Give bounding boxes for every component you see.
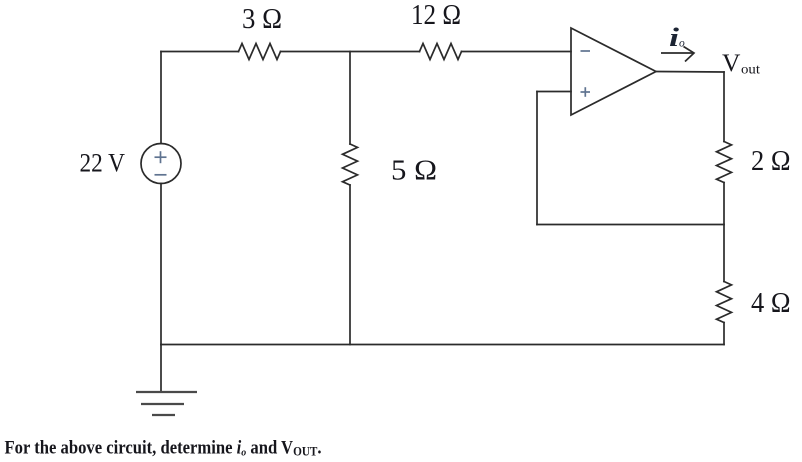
wire right vertical (Vout to 2-ohm) bbox=[723, 72, 725, 142]
wire feedback vertical bbox=[536, 92, 538, 225]
svg-text:o: o bbox=[679, 38, 685, 50]
resistor 12 ohm bbox=[420, 44, 462, 60]
wire op-amp output bbox=[656, 71, 724, 74]
wire left vertical upper (source to top wire) bbox=[160, 52, 162, 144]
op-amp input polarity marks bbox=[581, 51, 591, 97]
wire 12-ohm to op-amp inverting input bbox=[462, 51, 572, 53]
voltage source V1 22V circle bbox=[141, 144, 181, 184]
resistor 4 ohm bbox=[717, 282, 732, 323]
svg-text:4 Ω: 4 Ω bbox=[751, 287, 791, 319]
wire feedback horizontal bbox=[537, 224, 724, 226]
wire noninverting input stub bbox=[537, 91, 571, 93]
resistor 3 ohm bbox=[239, 44, 281, 60]
wire left vertical lower (source to bottom wire) bbox=[160, 184, 162, 345]
wire bottom horizontal bbox=[161, 344, 724, 346]
wire right vertical (2-ohm to 4-ohm through feedback node) bbox=[723, 183, 725, 282]
ground symbol bbox=[136, 392, 197, 415]
resistor 2 ohm bbox=[717, 142, 732, 183]
svg-text:2 Ω: 2 Ω bbox=[751, 145, 791, 177]
svg-text:out: out bbox=[741, 62, 760, 77]
op-amp U1 triangle bbox=[571, 28, 656, 115]
wire ground stem bbox=[160, 345, 162, 393]
voltage source polarity marks bbox=[155, 151, 167, 175]
svg-text:3 Ω: 3 Ω bbox=[242, 3, 282, 35]
resistor 5 ohm bbox=[343, 144, 358, 185]
svg-text:5 Ω: 5 Ω bbox=[391, 155, 437, 187]
wire middle vertical upper (node A to 5-ohm) bbox=[349, 52, 351, 145]
svg-text:12 Ω: 12 Ω bbox=[411, 0, 461, 31]
wire top-left horizontal (source top to 3-ohm) bbox=[161, 51, 239, 53]
wire top-middle (3-ohm to 12-ohm through node A) bbox=[281, 51, 420, 53]
wire middle vertical lower (5-ohm to bottom wire) bbox=[349, 185, 351, 345]
current arrow io bbox=[661, 47, 694, 62]
svg-text:For the above circuit, determi: For the above circuit, determine io and … bbox=[5, 437, 322, 459]
svg-text:22 V: 22 V bbox=[80, 149, 126, 178]
svg-text:V: V bbox=[722, 48, 741, 77]
wire right vertical (4-ohm to bottom wire) bbox=[723, 323, 725, 345]
